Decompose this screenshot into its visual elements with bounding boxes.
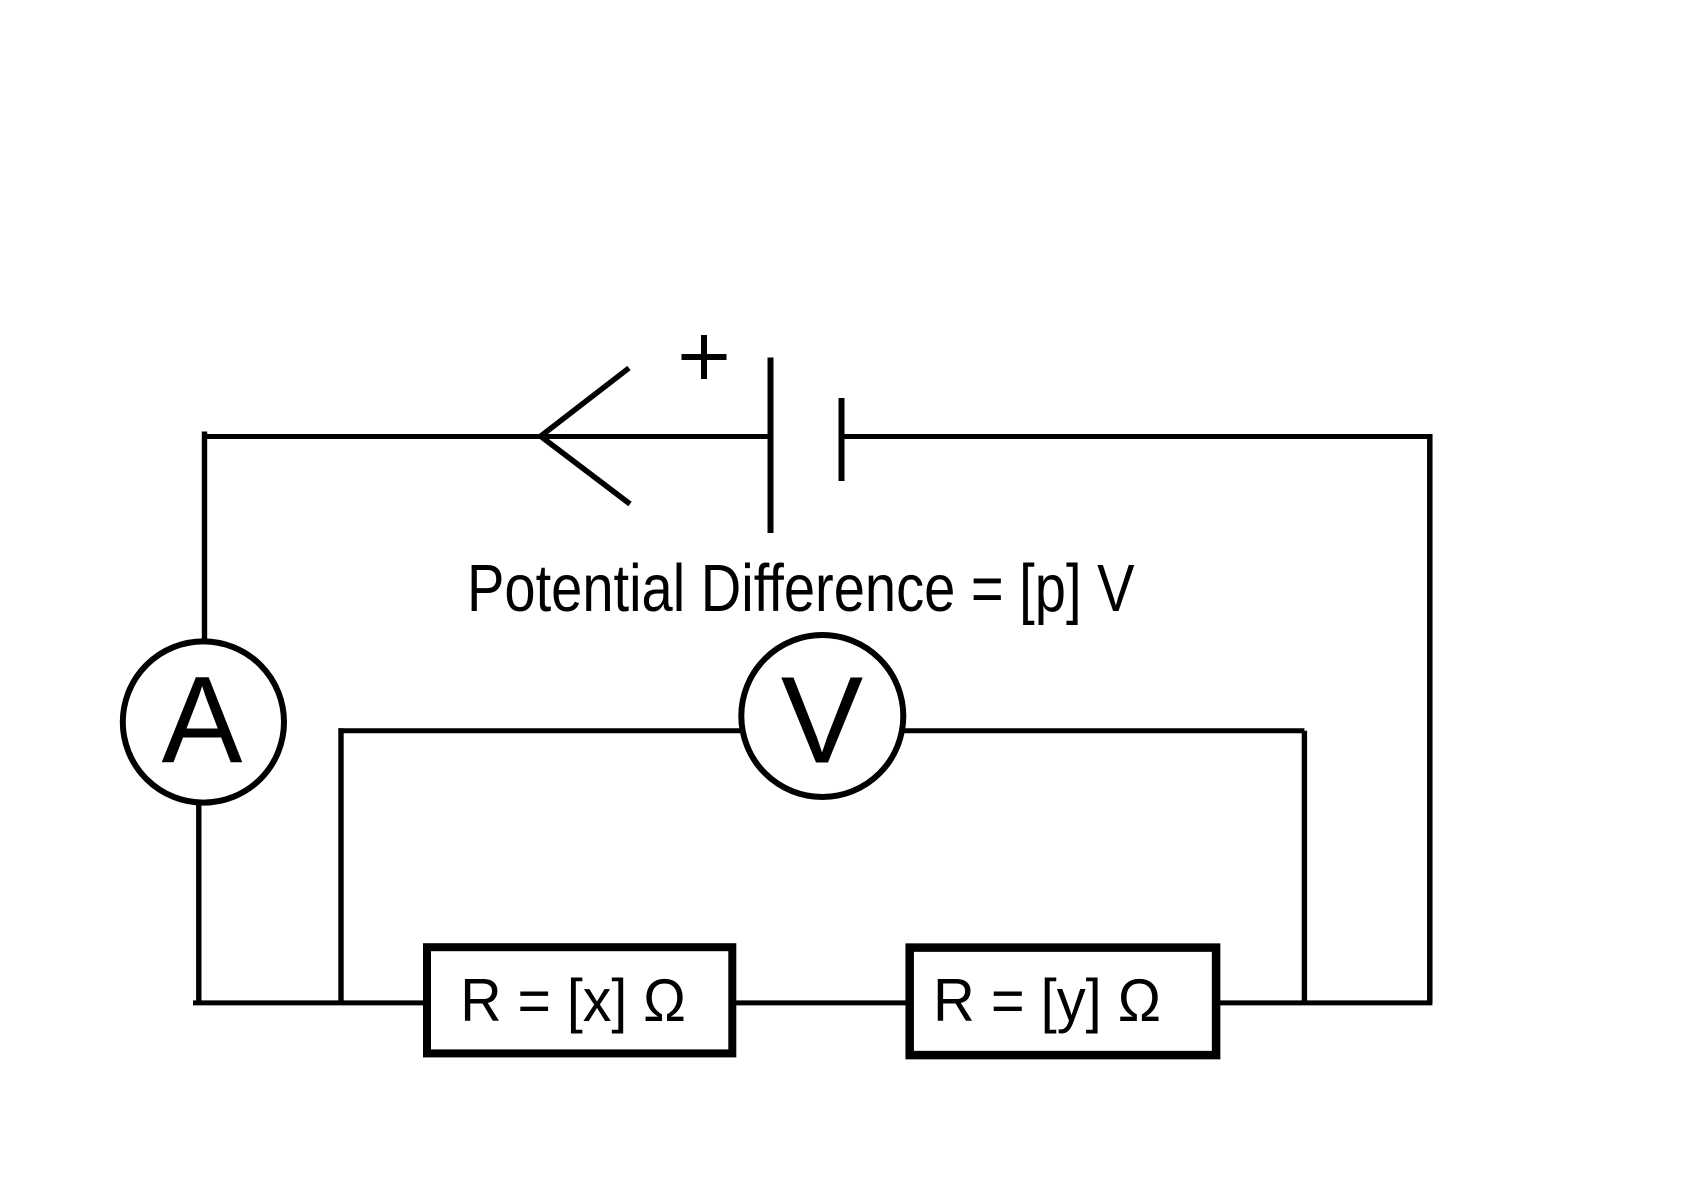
svg-text:R = [y] Ω: R = [y] Ω <box>933 967 1161 1034</box>
wire: voltmeter branch left vertical <box>338 728 343 1003</box>
wire: voltmeter branch right vertical <box>1302 731 1307 1003</box>
wire: top-right horizontal segment <box>842 434 1433 439</box>
resistor R1 box <box>427 947 732 1053</box>
ammeter A <box>123 641 284 802</box>
wire: ammeter to bottom-left corner vertical <box>196 790 201 1003</box>
wire: voltmeter branch left horizontal <box>339 728 791 733</box>
battery B1 positive plate <box>768 358 774 534</box>
wire: voltmeter branch right horizontal <box>860 728 1304 733</box>
wire: left vertical (top) <box>202 432 207 661</box>
current direction arrow <box>541 368 630 504</box>
svg-text:A: A <box>162 651 244 789</box>
wire: right vertical <box>1427 434 1433 1003</box>
wire: between resistors <box>732 1000 910 1005</box>
wire: bottom-left horizontal <box>193 1000 430 1005</box>
svg-text:Potential Difference = [p] V: Potential Difference = [p] V <box>467 551 1135 626</box>
battery polarity + label <box>682 335 727 379</box>
svg-text:V: V <box>781 651 864 789</box>
resistor R2 box <box>910 948 1216 1056</box>
wire: top-left horizontal segment <box>202 434 771 439</box>
wire: bottom-right horizontal <box>1216 1000 1432 1005</box>
voltmeter V <box>741 635 903 797</box>
battery B1 negative plate <box>839 398 845 481</box>
svg-text:R = [x] Ω: R = [x] Ω <box>460 967 686 1034</box>
